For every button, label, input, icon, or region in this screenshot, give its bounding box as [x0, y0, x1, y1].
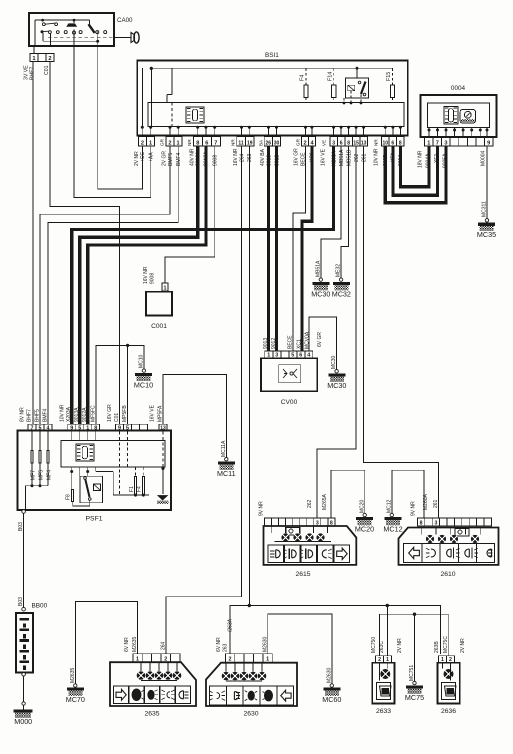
front lamp 2630 box	[206, 663, 297, 706]
wire 9005 BSI to 0004 pin3	[385, 146, 446, 203]
side repeater 2636 pins	[439, 656, 455, 663]
svg-text:PSF1: PSF1	[86, 516, 103, 523]
svg-text:16V VE: 16V VE	[321, 148, 327, 166]
svg-text:NR: NR	[374, 139, 379, 146]
PSF1 top connector 16V VE pin 13	[159, 424, 167, 431]
svg-text:BSI1: BSI1	[265, 52, 279, 59]
wire 263 BSI down	[248, 146, 250, 606]
svg-text:7: 7	[31, 426, 34, 432]
svg-text:F8: F8	[66, 494, 72, 500]
wire BMF4 BSI to PSF1-4	[48, 146, 178, 424]
wire BMF5 BSI to PSF1-5	[40, 146, 170, 424]
column switch CV00 pins	[265, 351, 313, 358]
BSI connector 2V GR pins 2,1	[166, 137, 182, 147]
svg-text:+CC: +CC	[140, 151, 146, 162]
switch contact 3	[88, 20, 90, 24]
svg-text:X203A: X203A	[66, 406, 72, 422]
BSI connector symbol	[186, 107, 204, 123]
svg-text:M2635: M2635	[70, 667, 76, 683]
2615 lamp icons	[268, 545, 284, 562]
svg-text:MC60: MC60	[322, 695, 341, 704]
svg-text:263: 263	[247, 153, 253, 162]
svg-text:263C: 263C	[379, 641, 385, 653]
fuse MF7	[31, 432, 33, 486]
svg-text:2636: 2636	[441, 708, 456, 715]
wire MF5FC PSF1-8 ground link	[96, 345, 144, 424]
wire BHF7 C01-1 to PSF1-7	[32, 62, 34, 425]
svg-text:2V NR: 2V NR	[460, 638, 466, 653]
wire M265A 2615-8 to ground MC20	[331, 470, 365, 518]
svg-text:MC11: MC11	[217, 469, 236, 478]
PSF1 relay	[80, 476, 102, 503]
svg-text:264: 264	[161, 641, 167, 650]
svg-text:BMF4: BMF4	[43, 408, 49, 422]
ground M000	[14, 710, 33, 713]
svg-text:3: 3	[434, 520, 437, 526]
svg-text:26: 26	[266, 140, 272, 146]
2630 bulbs	[222, 672, 231, 681]
front lamp 2635 pins	[133, 654, 180, 662]
svg-text:M2630: M2630	[326, 667, 332, 683]
svg-text:MC75: MC75	[405, 693, 424, 702]
wire XC1 BSI to CV00-6	[302, 146, 312, 351]
ground MC11	[218, 462, 235, 465]
svg-text:9012: 9012	[271, 338, 277, 349]
svg-text:2630: 2630	[243, 711, 258, 718]
mechanical link dashed line	[48, 36, 120, 38]
svg-text:16V NR: 16V NR	[143, 266, 149, 284]
svg-text:BHF7: BHF7	[30, 67, 36, 80]
ignition bus	[35, 19, 89, 21]
svg-text:10: 10	[382, 140, 388, 146]
svg-text:MC750: MC750	[371, 637, 377, 653]
wire C01-2 to PSF1 16VGR-9	[50, 62, 120, 425]
switch contact 2 (closed)	[73, 20, 75, 23]
svg-text:2V GR: 2V GR	[162, 151, 168, 166]
svg-text:30: 30	[274, 140, 280, 146]
svg-text:M000: M000	[14, 717, 32, 726]
svg-text:16V NR: 16V NR	[233, 148, 239, 166]
svg-text:CA00: CA00	[117, 17, 133, 24]
svg-text:5: 5	[39, 426, 42, 432]
svg-text:M265A: M265A	[322, 493, 328, 510]
svg-text:MF5FC: MF5FC	[90, 405, 96, 422]
connector C01	[33, 46, 35, 54]
2615 bulbs	[286, 528, 300, 536]
BSI connector 2V NR pins 2,1	[138, 137, 154, 147]
wire +AA ignition to BSI	[74, 30, 151, 198]
wire B03 PSF1 to battery	[22, 510, 26, 514]
svg-text:BHF7: BHF7	[27, 409, 33, 422]
svg-text:6V NR: 6V NR	[216, 637, 222, 652]
svg-text:MF5: MF5	[38, 470, 44, 480]
2630 lamp icons	[210, 686, 227, 705]
svg-text:7: 7	[436, 140, 439, 146]
svg-text:F4: F4	[300, 75, 306, 81]
PSF1 pin13 internal	[162, 432, 164, 469]
svg-text:2: 2	[229, 657, 232, 663]
BSI connector 10V NR pins 10,6,8	[382, 137, 405, 147]
svg-text:F15: F15	[386, 72, 392, 81]
svg-text:CV00: CV00	[281, 399, 298, 406]
0004 gauge symbol	[460, 110, 475, 123]
BSI relay	[346, 78, 369, 98]
wire 264 BSI to lamp 2635	[166, 146, 242, 654]
svg-text:MB51A: MB51A	[339, 149, 345, 166]
svg-text:MP5FB: MP5FB	[122, 405, 128, 422]
wire 9013 BSI to CV00-1	[267, 146, 270, 351]
svg-text:MC12: MC12	[383, 525, 402, 534]
fuse MF5	[39, 432, 41, 486]
svg-text:6V NR: 6V NR	[124, 637, 130, 652]
instrument cluster 0004 box	[421, 95, 497, 137]
svg-text:MCV0A: MCV0A	[305, 331, 311, 349]
svg-text:MC30: MC30	[327, 381, 346, 390]
BSI internal dashed link with notch	[171, 68, 173, 94]
svg-text:F14: F14	[327, 72, 333, 81]
svg-text:+AA: +AA	[148, 152, 154, 162]
svg-text:2: 2	[304, 140, 307, 146]
svg-text:MB51A: MB51A	[315, 260, 321, 277]
svg-text:/263A: /263A	[228, 618, 234, 632]
rear lamp 2615 pins	[265, 518, 335, 526]
svg-text:MF7: MF7	[30, 470, 36, 480]
fuse F14	[333, 68, 335, 85]
PSF1 lower bus	[113, 494, 149, 496]
svg-text:8: 8	[196, 140, 199, 146]
svg-text:MC11A: MC11A	[221, 440, 227, 457]
svg-text:11: 11	[238, 140, 244, 146]
svg-text:16V GR: 16V GR	[294, 148, 300, 166]
ground MC70	[67, 688, 84, 691]
svg-text:R: R	[266, 694, 271, 700]
BSI connector 40V BA pins 26,30	[264, 137, 280, 147]
2635 bulbs	[137, 671, 146, 680]
svg-text:MC30: MC30	[311, 290, 330, 299]
ground MC75	[406, 685, 423, 688]
svg-text:2: 2	[48, 56, 51, 62]
svg-text:XC1: XC1	[297, 339, 303, 349]
svg-text:16V GR: 16V GR	[107, 404, 113, 422]
svg-text:MC20: MC20	[355, 525, 374, 534]
svg-text:6V GR: 6V GR	[317, 332, 323, 347]
wire 9013A BSI to PSF1-5	[80, 146, 198, 424]
svg-text:C001: C001	[151, 323, 167, 330]
svg-text:9: 9	[70, 426, 73, 432]
BSI internal wire +CC	[141, 68, 143, 127]
svg-text:C01: C01	[114, 413, 120, 422]
svg-text:1: 1	[177, 140, 180, 146]
svg-text:M0004: M0004	[480, 150, 486, 166]
svg-text:F1: F1	[129, 486, 135, 492]
rear lamp 2610 pins	[417, 518, 491, 526]
svg-text:9V NR: 9V NR	[259, 501, 265, 516]
front lamp 2635 box	[110, 662, 196, 706]
wire M2630 lamp 2630 to ground MC60	[268, 614, 332, 684]
svg-text:2633: 2633	[376, 708, 391, 715]
svg-text:F4: F4	[137, 486, 143, 492]
wire 9008 BSI to C001	[165, 146, 215, 283]
wire 9012 BSI to CV00-3	[275, 146, 278, 351]
ground MC12	[385, 517, 402, 520]
svg-text:15: 15	[353, 140, 359, 146]
ignition switch CA00 box	[29, 13, 114, 46]
svg-text:R: R	[134, 693, 139, 699]
0004 pin junctions	[428, 129, 431, 132]
svg-text:B03: B03	[18, 597, 24, 606]
ground MC35	[478, 223, 495, 226]
svg-text:MC10: MC10	[139, 354, 145, 368]
wire M0004 to ground MC35	[486, 146, 488, 219]
svg-text:18V NR: 18V NR	[418, 150, 424, 168]
svg-text:0004: 0004	[451, 85, 466, 92]
wire MC75 net	[380, 614, 449, 656]
column switch CV00 box	[261, 358, 317, 391]
svg-text:BHF5: BHF5	[35, 409, 41, 422]
svg-text:1: 1	[164, 285, 167, 291]
BSI connector 16V NR pins 11,19	[237, 137, 254, 147]
wire MCV0A CV00-4 to ground MC30	[309, 317, 337, 369]
PSF1 dashed links 16V GR	[119, 432, 121, 496]
svg-text:NR: NR	[187, 139, 192, 146]
svg-text:9: 9	[487, 140, 490, 146]
svg-text:263: 263	[223, 643, 229, 652]
svg-text:6: 6	[391, 140, 394, 146]
BSI inner rail	[151, 67, 392, 69]
fuse MF4	[47, 432, 49, 486]
wire X203A BSI to PSF1-9	[72, 146, 334, 424]
wire MP5FA PSF1-13 to ground MC11	[163, 374, 226, 457]
svg-text:13: 13	[361, 140, 367, 146]
svg-text:MC75C: MC75C	[443, 636, 449, 653]
ignition link line	[43, 40, 98, 42]
svg-text:9008: 9008	[150, 273, 156, 284]
svg-text:MC751: MC751	[409, 665, 415, 681]
svg-text:MC32: MC32	[332, 290, 351, 299]
svg-text:8V NR: 8V NR	[20, 407, 26, 422]
svg-text:8: 8	[94, 426, 97, 432]
svg-text:10V NR: 10V NR	[374, 148, 380, 166]
2610 lamp icons	[404, 544, 422, 563]
key symbol	[114, 37, 131, 39]
PSF1 top connector 10V NR pins 9,5,1,8	[68, 424, 100, 431]
svg-text:1: 1	[266, 657, 269, 663]
svg-text:2615: 2615	[295, 571, 310, 578]
PSF1 top connector 8V NR pins 7,5,4	[28, 424, 52, 431]
fuse F15	[391, 68, 393, 85]
svg-text:M2630: M2630	[263, 636, 269, 652]
svg-text:MC10: MC10	[134, 380, 153, 389]
0004 processor symbol	[444, 107, 458, 125]
switch contact 1	[42, 23, 45, 26]
PSF1 internal ground	[157, 495, 169, 500]
wire M2635 lamp 2635 to ground MC70	[75, 601, 137, 684]
svg-text:MC70: MC70	[66, 695, 85, 704]
svg-text:VE: VE	[322, 140, 327, 146]
svg-text:2: 2	[168, 140, 171, 146]
PSF1 top connector 16V GR pins 9,5	[116, 424, 148, 431]
fuse F4 PSF1	[142, 467, 144, 476]
wire BECE BSI to CV00-5	[293, 146, 306, 351]
svg-text:MC12: MC12	[386, 499, 392, 513]
side repeater 2633 box	[372, 663, 394, 704]
svg-text:BA: BA	[259, 139, 264, 146]
svg-text:2: 2	[141, 140, 144, 146]
svg-text:8: 8	[347, 140, 350, 146]
svg-text:263B: 263B	[434, 641, 440, 653]
wire 9004 BSI to 0004 pin1	[400, 146, 429, 187]
fuse box PSF1 outline	[18, 431, 172, 511]
svg-text:MC30: MC30	[331, 355, 337, 369]
BSI connector 40V NR pins 8,6,7	[193, 137, 220, 147]
svg-text:MB51B: MB51B	[346, 149, 352, 166]
svg-text:ME32: ME32	[336, 264, 342, 277]
PSF1 internal wires 10V NR	[71, 432, 73, 441]
rear lamp 2610 box	[399, 528, 499, 565]
BSI connector 16V VE pins 3,6,8,15,13	[330, 137, 368, 147]
svg-text:NR: NR	[231, 139, 236, 146]
ground MC30 lower	[328, 374, 345, 377]
svg-text:8: 8	[399, 140, 402, 146]
svg-text:M2635: M2635	[132, 636, 138, 652]
svg-text:16V VE: 16V VE	[150, 404, 156, 422]
svg-text:1: 1	[86, 426, 89, 432]
svg-text:10V NR: 10V NR	[60, 404, 66, 422]
0004 connector pins 1,7,3,9	[425, 137, 493, 146]
fuse F1	[135, 467, 137, 476]
svg-text:MC20: MC20	[359, 499, 365, 513]
svg-text:4: 4	[47, 426, 50, 432]
svg-text:3: 3	[444, 140, 447, 146]
svg-text:1: 1	[149, 140, 152, 146]
svg-text:9013A: 9013A	[74, 407, 80, 422]
wire MC12 2610-8 to ground MC12	[392, 470, 424, 518]
svg-text:2635: 2635	[144, 711, 159, 718]
side repeater 2636 box	[438, 663, 460, 704]
svg-text:BB00: BB00	[32, 603, 48, 610]
relay box C001	[162, 283, 168, 291]
svg-text:MF4: MF4	[46, 470, 52, 480]
svg-text:262: 262	[307, 499, 313, 508]
svg-text:GR: GR	[160, 138, 165, 146]
battery BB00	[22, 607, 26, 611]
svg-text:9V NR: 9V NR	[411, 501, 417, 516]
svg-text:9: 9	[118, 426, 121, 432]
PSF1 inner box	[61, 441, 165, 468]
BSI inner box	[148, 103, 404, 127]
2610 bulbs	[455, 529, 469, 537]
svg-text:261: 261	[433, 499, 439, 508]
svg-text:264: 264	[239, 153, 245, 162]
svg-text:13: 13	[160, 426, 166, 432]
wire PSF1 16VGR-5 stub	[127, 345, 129, 424]
svg-text:40V BA: 40V BA	[260, 148, 266, 166]
svg-text:5: 5	[126, 426, 129, 432]
wire 263 junction to front lamps	[230, 606, 441, 654]
svg-text:261: 261	[361, 153, 367, 162]
ground MC20	[356, 517, 373, 520]
ground MC30	[312, 282, 329, 285]
wire battery to ground M000	[23, 676, 25, 702]
PSF1 connector symbol	[76, 444, 94, 461]
svg-text:2V NR: 2V NR	[397, 638, 403, 653]
BSI pin junctions	[141, 126, 144, 129]
wire MB51B BSI to ground MC32	[341, 146, 349, 278]
BSI internal wire +AA	[150, 68, 152, 127]
svg-text:9012A: 9012A	[82, 407, 88, 422]
svg-text:BMF5: BMF5	[168, 152, 174, 166]
svg-text:9008: 9008	[213, 155, 219, 166]
svg-text:C01: C01	[44, 65, 50, 75]
BSI unit BSI1 box	[137, 61, 407, 136]
wire +CC ignition to BSI	[98, 31, 143, 189]
wire 9012A BSI to PSF1-1	[88, 146, 206, 424]
svg-text:5: 5	[78, 426, 81, 432]
svg-text:6: 6	[340, 140, 343, 146]
PSF1 feed bus to battery	[26, 485, 49, 487]
svg-text:MC35: MC35	[477, 230, 496, 239]
side repeater 2633 pins	[376, 656, 392, 663]
ground MC60	[323, 688, 340, 691]
wire 261 BSI to lamp 2610	[364, 146, 439, 518]
svg-text:3: 3	[332, 140, 335, 146]
svg-text:GR: GR	[296, 138, 301, 146]
svg-text:8: 8	[420, 520, 423, 526]
svg-text:262: 262	[354, 153, 360, 162]
svg-text:6: 6	[205, 140, 208, 146]
wire MB51A BSI to ground MC30	[321, 146, 341, 278]
wire 262 BSI to lamp 2615	[317, 146, 356, 518]
ground MC10	[142, 369, 145, 372]
ground MC32	[333, 282, 350, 285]
svg-text:9013: 9013	[263, 338, 269, 349]
2635 lamp icons	[114, 686, 129, 704]
wire XE1 BSI to 0004 pin7	[393, 146, 438, 195]
svg-text:7: 7	[214, 140, 217, 146]
front lamp 2630 pins	[225, 654, 272, 662]
rear lamp 2615 box	[264, 526, 357, 565]
svg-text:BMF4: BMF4	[176, 152, 182, 166]
svg-text:2610: 2610	[440, 571, 455, 578]
BSI connector 16V GR pins 2,4	[302, 137, 316, 147]
fuse F8	[72, 490, 74, 502]
svg-text:1: 1	[427, 140, 430, 146]
fuse F4	[305, 68, 307, 85]
svg-text:B03: B03	[18, 522, 24, 531]
svg-text:BECE: BECE	[288, 335, 294, 349]
svg-text:MC311: MC311	[482, 201, 488, 217]
svg-text:19: 19	[247, 140, 253, 146]
